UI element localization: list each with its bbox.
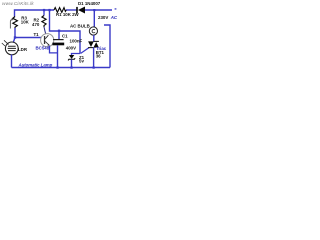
wire top rail between R1 and D1	[66, 9, 77, 11]
wire top rail from D1 to terminal	[85, 9, 113, 11]
node base junction	[14, 36, 16, 38]
svg-text:400V: 400V	[66, 45, 76, 50]
wire base	[15, 37, 41, 39]
wire LDR bottom to rail	[11, 55, 13, 68]
svg-text:10K: 10K	[21, 20, 30, 25]
svg-text:AC: AC	[110, 15, 118, 20]
terminal 230V AC line 2 corner wire	[104, 25, 110, 68]
node C1 bottom junction	[56, 66, 58, 68]
resistor R1 zigzag	[54, 8, 66, 13]
wire lamp branch top	[93, 10, 95, 27]
wire R2 top stub	[43, 10, 45, 16]
wire C1 top stub	[58, 31, 60, 39]
svg-text:www.CirKits.lk: www.CirKits.lk	[2, 1, 34, 7]
wire triac to rail	[93, 47, 95, 67]
node C1 top junction	[58, 30, 60, 32]
wire R3 to base junction	[13, 28, 15, 43]
wire zener feed jog	[72, 54, 81, 56]
node junction feed top	[48, 9, 50, 11]
wire emitter to rail	[50, 46, 58, 53]
wire top rail left with corner to R3	[15, 10, 55, 17]
svg-text:Automatic Lamp: Automatic Lamp	[18, 63, 53, 68]
preset arrow of R3	[10, 19, 12, 28]
capacitor C1 plates	[53, 39, 64, 40]
wire zener to rail	[71, 59, 73, 67]
resistor R2 zigzag	[42, 16, 46, 28]
node triac rail junction	[93, 66, 95, 68]
node junction R2 top	[43, 9, 45, 11]
svg-text:C1: C1	[62, 34, 68, 39]
terminal 230V AC line 1	[115, 8, 117, 10]
svg-text:LDR: LDR	[18, 47, 28, 52]
wire gate	[81, 48, 90, 54]
wire bulb to triac	[93, 35, 95, 42]
svg-text:T1: T1	[34, 32, 40, 37]
svg-text:36: 36	[96, 54, 101, 59]
node junction lamp branch	[93, 9, 95, 11]
resistor R3 zigzag	[13, 17, 18, 29]
zener Z1	[68, 55, 75, 60]
svg-text:230V: 230V	[98, 15, 108, 20]
svg-text:D1 1N4007: D1 1N4007	[78, 1, 101, 6]
transistor T1	[41, 34, 54, 47]
svg-text:AC BULB: AC BULB	[70, 24, 90, 29]
wire feed down and across to zener	[50, 10, 81, 54]
lamp AC bulb	[89, 27, 97, 35]
LDR	[2, 40, 18, 55]
svg-text:470: 470	[32, 22, 40, 27]
diode D1	[76, 7, 85, 14]
triac	[88, 41, 99, 47]
wire C1 bottom to rail	[57, 45, 59, 67]
wire bottom rail	[12, 67, 111, 69]
wire R2 to collector	[44, 27, 46, 34]
svg-text:5v: 5v	[79, 59, 84, 64]
node zener rail junction	[70, 66, 72, 68]
svg-text:BC548: BC548	[36, 46, 50, 51]
svg-text:R1 10K 2W: R1 10K 2W	[56, 12, 80, 17]
svg-text:100nF: 100nF	[70, 39, 83, 44]
